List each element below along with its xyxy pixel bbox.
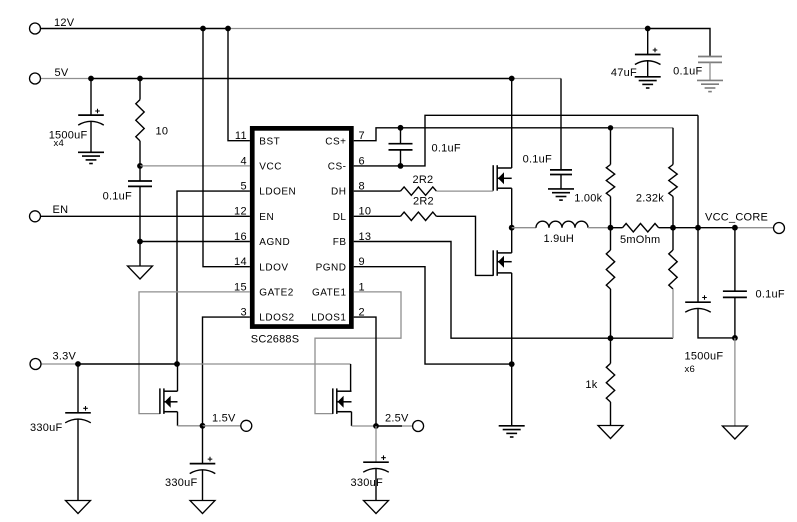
svg-text:2R2: 2R2 — [413, 174, 434, 186]
wire 5V rail tail — [512, 78, 561, 80]
svg-text:2.32k: 2.32k — [636, 192, 664, 204]
wire pin 13 FB to divider — [354, 242, 673, 339]
node EN terminal — [30, 211, 41, 222]
svg-text:10: 10 — [156, 126, 169, 138]
wire VCC_CORE to lower resistor right — [672, 228, 674, 250]
ground earth under 1500uF x4 — [78, 152, 104, 163]
wire 5mOhm right lead — [659, 227, 673, 229]
wire Q2 source to 2.5V node — [352, 425, 377, 427]
node VCC_CORE terminal — [774, 223, 785, 234]
svg-text:CS+: CS+ — [325, 136, 346, 147]
wire VCC_CORE line to terminal — [735, 227, 774, 229]
wire 5V rail first segment — [40, 78, 91, 80]
svg-text:1.5V: 1.5V — [212, 413, 236, 425]
wire 330uF mid to ground — [202, 470, 204, 501]
IC U1 SC2688S body — [252, 128, 351, 326]
node 3.3V terminal — [30, 359, 41, 370]
node 2.5V terminal — [413, 421, 424, 432]
svg-text:FB: FB — [333, 237, 347, 248]
wire 0.1uF to AGND node — [139, 186, 141, 241]
resistor divider right — [669, 250, 677, 289]
node 12V terminal — [30, 23, 41, 34]
svg-text:GATE2: GATE2 — [259, 288, 294, 299]
wire 5V to Q3 drain — [511, 79, 513, 169]
wire 0.1uF out to ground dot — [734, 297, 736, 338]
svg-text:EN: EN — [53, 204, 69, 216]
wire 2R2 to Q4 gate — [436, 216, 493, 275]
junction switch node — [509, 225, 515, 231]
ground earth PGND — [499, 426, 525, 437]
svg-text:2R2: 2R2 — [413, 196, 434, 208]
capacitor 47uF — [635, 55, 661, 65]
wire 1.5V node to terminal — [203, 425, 241, 427]
junction 12V/BST — [225, 26, 231, 32]
wire 5V to 1500uF x4 — [90, 79, 92, 116]
capacitor 330uF (2.5V) — [363, 462, 389, 472]
wire FB node to 1k — [610, 338, 612, 363]
svg-text:4: 4 — [240, 155, 246, 167]
capacitor 1500uF x6 — [685, 302, 711, 312]
wire 12V rail middle segment — [229, 28, 648, 30]
junction 12V/47uF — [645, 26, 651, 32]
wire VCC to pin 4 — [140, 165, 250, 167]
ground triangle 330uF right — [364, 501, 389, 514]
wire Q1 source to 1.5V node — [178, 425, 203, 427]
capacitor 330uF (3.3V) — [65, 413, 91, 423]
resistor 2.32k — [669, 165, 677, 197]
wire inductor to sense node — [588, 227, 611, 229]
svg-text:16: 16 — [234, 231, 247, 243]
svg-text:LDOS2: LDOS2 — [259, 313, 294, 324]
wire Q3 source to switch node — [511, 188, 513, 228]
svg-text:x6: x6 — [685, 364, 696, 375]
ground triangle 330uF mid — [190, 501, 215, 514]
wire 2.32k to VCC_CORE — [672, 197, 674, 228]
wire 330uF right to ground — [375, 468, 377, 500]
wire 3.3V rail end to Q2 drain — [350, 364, 352, 391]
svg-text:0.1uF: 0.1uF — [103, 191, 132, 203]
junction CS+ / 0.1uF — [398, 125, 404, 131]
svg-text:330uF: 330uF — [165, 477, 197, 489]
transistor Q1 LDO 1.5V NMOS — [160, 388, 178, 414]
svg-text:5mOhm: 5mOhm — [620, 234, 660, 246]
svg-text:12V: 12V — [54, 17, 75, 29]
transistor Q2 LDO 2.5V NMOS — [333, 388, 352, 414]
wire pin 2 LDOS1 down to 2.5V node — [354, 317, 376, 426]
svg-text:LDOV: LDOV — [259, 262, 288, 273]
wire 12V rail left segment — [40, 28, 229, 30]
svg-text:VCC_CORE: VCC_CORE — [705, 211, 768, 223]
svg-text:0.1uF: 0.1uF — [523, 154, 552, 166]
transistor Q4 low-side NMOS — [493, 250, 512, 275]
junction 3.3V/330uF — [75, 361, 81, 367]
wire 12V to pin 14 LDOV — [203, 29, 250, 267]
wire pin 5 LDOEN down to 3.3V rail — [177, 191, 250, 364]
wire Q4 source down — [511, 273, 513, 364]
svg-text:0.1uF: 0.1uF — [432, 143, 461, 155]
svg-text:330uF: 330uF — [351, 477, 383, 489]
svg-text:3.3V: 3.3V — [53, 351, 77, 363]
wire CS- rail down through VCC_CORE to 1500uF x6 — [697, 115, 699, 302]
junction PGND node — [509, 361, 515, 367]
inductor L1 1.9uH — [536, 221, 588, 228]
wire pin 10 DL lead — [354, 215, 401, 217]
wire CS+ to 0.1uF — [400, 128, 402, 144]
capacitor 0.1uF (12V decouple) — [698, 57, 722, 63]
wire 1.00k to sense node — [610, 197, 612, 228]
wire pin 1 GATE1 to Q2 gate — [315, 292, 401, 414]
wire lower resistor to FB — [610, 289, 612, 338]
junction 2.5V node — [373, 423, 379, 429]
wire 12V to 47uF — [647, 29, 649, 55]
capacitor 330uF (1.5V) — [190, 464, 216, 474]
wire switch node to Q4 drain — [511, 228, 513, 253]
svg-text:GATE1: GATE1 — [312, 288, 347, 299]
svg-text:DH: DH — [331, 187, 346, 198]
wire 5mOhm left lead — [611, 227, 623, 229]
wire Q1 source down — [177, 412, 179, 426]
ground triangle output — [722, 426, 747, 439]
junction inductor/5mOhm left — [608, 225, 614, 231]
junction 3.3V/LDOEN/Q1 drain — [174, 361, 180, 367]
svg-text:2.5V: 2.5V — [385, 413, 409, 425]
wire pin 7 CS+ rail — [354, 128, 611, 141]
capacitor 0.1uF (VCC) — [128, 181, 152, 186]
transistor Q3 high-side NMOS — [493, 165, 512, 191]
svg-text:5V: 5V — [55, 67, 69, 79]
wire 12V rail right segment to 0.1uF — [648, 29, 710, 57]
resistor 1k — [606, 363, 614, 402]
resistor R 10 — [136, 100, 144, 141]
capacitor 0.1uF (CS filter) — [389, 144, 413, 150]
wire VCC_CORE to 0.1uF out — [734, 228, 736, 292]
svg-text:0.1uF: 0.1uF — [673, 65, 702, 77]
wire 330uF left to ground — [77, 419, 79, 501]
wire EN to pin 12 — [40, 215, 250, 217]
wire 12V to pin 11 BST — [228, 29, 250, 141]
wire 1k to ground — [610, 402, 612, 426]
wire switch node to inductor — [512, 227, 536, 229]
junction CS- / 0.1uF — [398, 163, 404, 169]
ground earth top 0.1uF — [697, 80, 723, 91]
ground triangle 330uF left — [66, 501, 91, 514]
svg-text:1.00k: 1.00k — [574, 192, 602, 204]
wire AGND node to ground — [139, 242, 141, 267]
ground earth 47uF — [635, 77, 661, 88]
wire 2.5V node to terminal — [376, 425, 402, 427]
wire lower resistor right to FB — [672, 289, 674, 338]
junction 1500uF/0.1uF ground — [732, 335, 738, 341]
junction VCC node — [137, 163, 143, 169]
wire 5V to resistor 10 — [139, 79, 141, 100]
svg-text:LDOEN: LDOEN — [259, 187, 296, 198]
svg-text:1k: 1k — [585, 379, 597, 391]
svg-text:47uF: 47uF — [611, 67, 637, 79]
junction 5mOhm right/VCC_CORE — [670, 225, 676, 231]
svg-text:LDOS1: LDOS1 — [311, 313, 346, 324]
junction 12V/LDOV — [200, 26, 206, 32]
wire 3.3V rail segment 3 — [177, 363, 351, 365]
wire AGND to pin 16 — [140, 241, 250, 243]
wire output ground stem — [734, 338, 736, 426]
wire 3.3V rail segment 1 — [41, 363, 78, 365]
wire 1500uF x4 to ground — [90, 121, 92, 152]
resistor 2R2 (DL) — [401, 212, 437, 220]
wire 47uF to ground — [647, 61, 649, 77]
wire Q2 source down — [351, 412, 353, 426]
wire pin 3 LDOS2 down to 1.5V node — [203, 317, 250, 426]
svg-text:BST: BST — [259, 136, 280, 147]
wire 1500uF x6 to ground link — [698, 308, 735, 338]
junction 5V/1500uF — [88, 76, 94, 82]
wire 2.5V to terminal tail — [402, 425, 413, 427]
wire CS+ rail to 2.32k — [672, 128, 674, 165]
wire 3.3V rail segment 2 — [78, 363, 177, 365]
svg-text:1500uF: 1500uF — [685, 351, 724, 363]
node 1.5V terminal — [241, 420, 252, 431]
wire pin 15 GATE2 to Q1 gate — [139, 292, 250, 414]
svg-text:CS-: CS- — [328, 162, 347, 173]
wire pin 8 DH lead — [354, 190, 401, 192]
capacitor 0.1uF (output) — [723, 291, 747, 297]
wire resistor 10 to VCC node — [139, 141, 141, 166]
wire 0.1uF to ground — [709, 62, 711, 80]
wire CS+ to 1.00k — [610, 128, 612, 165]
wire 3.3V to 330uF left — [77, 364, 79, 413]
resistor 2R2 (DH) — [401, 187, 437, 195]
svg-text:330uF: 330uF — [30, 422, 62, 434]
wire pin 6 CS- rail — [354, 115, 698, 166]
junction 1.5V node — [200, 423, 206, 429]
svg-text:12: 12 — [234, 206, 247, 218]
wire 5V rail middle — [91, 78, 512, 80]
ground earth mid 0.1uF — [548, 189, 574, 200]
node 5V terminal — [30, 73, 41, 84]
capacitor 0.1uF (5V decouple) — [550, 170, 572, 175]
junction VCC_CORE/1500uF x6 — [695, 225, 701, 231]
ground triangle AGND — [128, 266, 153, 279]
wire VCC node to 0.1uF — [139, 166, 141, 181]
wire sense node to lower resistor — [610, 228, 612, 250]
wire PGND node to ground — [511, 364, 513, 426]
wire 3.3V to Q1 drain — [177, 364, 179, 391]
junction AGND node — [137, 239, 143, 245]
junction 5V/R10 — [137, 76, 143, 82]
svg-text:DL: DL — [333, 212, 347, 223]
wire pin 9 PGND to ground node — [354, 267, 512, 364]
svg-text:1.9uH: 1.9uH — [544, 233, 575, 245]
svg-text:PGND: PGND — [316, 262, 347, 273]
ground triangle 1k — [598, 426, 623, 439]
capacitor 1500uF x4 — [78, 115, 104, 125]
junction VCC_CORE/0.1uF — [732, 225, 738, 231]
svg-text:0.1uF: 0.1uF — [756, 289, 785, 301]
wire 1.5V node to 330uF — [202, 426, 204, 464]
wire CS+ rail tail to 2.32k — [611, 127, 674, 129]
resistor 5mOhm sense — [623, 224, 659, 232]
svg-text:AGND: AGND — [259, 237, 290, 248]
junction 5V/high-side drain — [509, 76, 515, 82]
resistor divider left — [606, 250, 614, 289]
svg-text:SC2688S: SC2688S — [251, 334, 299, 346]
wire 2R2 to Q3 gate — [436, 190, 493, 192]
wire 0.1uF to ground — [560, 175, 562, 189]
svg-text:VCC: VCC — [259, 162, 282, 173]
junction FB node — [608, 335, 614, 341]
wire VCC_CORE line — [673, 227, 735, 229]
wire 2.5V node to 330uF — [375, 426, 377, 462]
wire 0.1uF to CS- — [400, 150, 402, 166]
svg-text:EN: EN — [259, 212, 274, 223]
resistor 1.00k — [606, 165, 614, 197]
wire 5V to mid 0.1uF — [560, 79, 562, 170]
svg-text:x4: x4 — [54, 138, 65, 149]
